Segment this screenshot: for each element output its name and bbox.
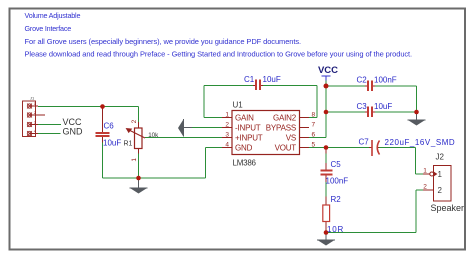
svg-text:R1: R1: [124, 140, 133, 147]
svg-text:10k: 10k: [148, 132, 159, 139]
svg-text:J2: J2: [436, 153, 445, 162]
svg-text:-INPUT: -INPUT: [235, 124, 261, 133]
svg-text:U1: U1: [233, 101, 244, 110]
svg-text:C6: C6: [104, 122, 115, 131]
svg-text:2: 2: [438, 186, 443, 195]
svg-text:C2: C2: [357, 76, 368, 85]
svg-text:GND: GND: [235, 144, 253, 153]
svg-text:10R: 10R: [327, 225, 344, 234]
svg-text:10uF: 10uF: [103, 139, 121, 148]
svg-text:VCC: VCC: [318, 65, 338, 76]
svg-text:R2: R2: [331, 195, 342, 204]
svg-text:220uF_16V_SMD: 220uF_16V_SMD: [385, 138, 456, 147]
svg-text:Speaker: Speaker: [431, 203, 465, 213]
svg-text:2: 2: [423, 184, 427, 191]
svg-text:Please download and read throu: Please download and read through Preface…: [25, 49, 413, 58]
svg-text:4: 4: [225, 142, 229, 149]
svg-text:C3: C3: [357, 102, 368, 111]
svg-text:5: 5: [312, 142, 316, 149]
svg-text:10uF: 10uF: [374, 102, 392, 111]
svg-text:1: 1: [438, 170, 443, 179]
svg-text:2: 2: [131, 119, 138, 123]
svg-text:Volume Adjustable: Volume Adjustable: [25, 11, 81, 20]
svg-text:8: 8: [312, 112, 316, 119]
svg-text:1: 1: [131, 158, 138, 162]
svg-text:7: 7: [312, 122, 316, 129]
svg-text:1: 1: [423, 168, 427, 175]
svg-text:C1: C1: [244, 75, 255, 84]
svg-text:1: 1: [225, 112, 229, 119]
svg-text:GAIN: GAIN: [235, 114, 254, 123]
svg-text:VS: VS: [286, 134, 296, 143]
svg-text:C5: C5: [331, 160, 342, 169]
svg-text:GAIN2: GAIN2: [273, 114, 297, 123]
svg-text:+INPUT: +INPUT: [235, 134, 263, 143]
svg-text:6: 6: [312, 132, 316, 139]
svg-text:LM386: LM386: [233, 158, 257, 167]
svg-text:BYPASS: BYPASS: [266, 124, 296, 133]
svg-text:C7: C7: [359, 138, 370, 147]
svg-text:100nF: 100nF: [326, 177, 349, 186]
svg-text:3: 3: [225, 132, 229, 139]
svg-text:10uF: 10uF: [263, 75, 281, 84]
svg-text:GND: GND: [63, 126, 84, 136]
svg-text:VOUT: VOUT: [275, 144, 297, 153]
svg-text:For all Grove users (especiall: For all Grove users (especially beginner…: [25, 37, 302, 46]
svg-text:Grove Interface: Grove Interface: [25, 24, 72, 33]
svg-text:2: 2: [225, 122, 229, 129]
svg-text:100nF: 100nF: [374, 76, 397, 85]
